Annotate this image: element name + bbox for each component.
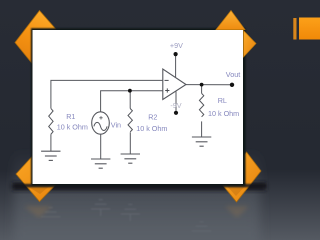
floor full-width lightening [0,170,320,240]
node -9V terminal [174,111,178,115]
svg-text:10 k Ohm: 10 k Ohm [57,122,88,131]
wire R2 branch from junction [129,91,131,109]
white slide [33,30,244,184]
svg-text:+9V: +9V [170,41,183,50]
slide drop shadow band [12,183,266,191]
reflection of Vin ground [91,200,110,216]
op-amp U1 [163,69,186,100]
orange corner diamond top-left [15,11,61,65]
wire op-amp output to Vout [186,84,232,86]
reflection of bottom-left diamond tip [24,206,52,218]
wire RL bottom to ground [201,121,203,137]
reflection of R2 ground [121,204,140,221]
wire Vin bottom to ground [100,134,102,159]
floor light reflection zone [14,150,260,240]
slide dark edge/shadow [31,28,246,186]
svg-text:-9V: -9V [170,101,181,110]
reflection of R1 ground [41,208,60,217]
orange bar right edge [293,18,320,40]
orange triangle up (top edge) [216,11,245,30]
ground below RL [192,137,211,146]
svg-text:R2: R2 [148,113,157,122]
node output junction [200,83,204,87]
svg-text:RL: RL [218,96,227,105]
svg-text:Vin: Vin [111,120,121,129]
reflection of RL ground [192,222,211,231]
node junction Vin/R2 [128,89,132,93]
svg-text:Vout: Vout [226,70,240,79]
wire output junction to RL [201,85,203,94]
ground below R2 [121,154,140,163]
svg-text:10 k Ohm: 10 k Ohm [136,124,167,133]
ground below R1 [41,151,60,160]
resistor R1 [49,108,53,134]
reflection of bottom-right diamond tip [225,206,249,218]
resistor R2 [128,109,132,132]
node +9V terminal [174,52,178,56]
wire R1 top to op-amp inverting input [51,80,163,108]
ground below Vin [91,159,110,168]
svg-text:R1: R1 [66,112,75,121]
slide bottom shadow line over diamonds [14,184,266,188]
wire R2 bottom to ground [129,132,131,154]
wire R1 bottom to ground [50,134,52,151]
circuit wires [51,56,232,159]
node Vout terminal [230,83,234,87]
source Vin [92,112,110,134]
wire +9V supply to op-amp [175,56,177,77]
wire op-amp to -9V supply [175,92,177,111]
orange triangle right (right edge) [244,31,257,58]
wire Vin top to junction to op-amp non-inverting input [101,91,163,112]
svg-text:10 k Ohm: 10 k Ohm [208,109,239,118]
resistor RL [199,93,203,116]
orange corner diamond bottom-right [221,152,261,202]
orange corner diamond bottom-left [16,150,63,202]
